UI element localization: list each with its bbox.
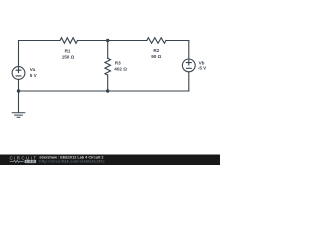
wire top rail middle segment [78,40,147,42]
node junction bottom middle [106,89,109,92]
wire middle branch upper [107,41,109,59]
svg-text:402 Ω: 402 Ω [114,67,127,72]
svg-text:5 V: 5 V [30,73,38,78]
Va minus sign [16,75,21,77]
footer watermark bar [0,155,220,166]
svg-text:R3: R3 [115,60,121,65]
resistor R3 [105,58,111,75]
logo LAB chip [25,160,36,163]
wire left branch upper [18,41,20,67]
voltage source Vb [182,59,195,72]
svg-text:R1: R1 [65,49,71,54]
wire right branch lower [188,72,190,91]
svg-text:R2: R2 [153,48,159,53]
wire right branch upper [188,41,190,60]
svg-text:150 Ω: 150 Ω [62,55,75,60]
wire middle branch lower [107,75,109,91]
logo resistor zigzag [10,160,24,162]
svg-text:Va: Va [30,67,36,72]
Vb plus sign [186,60,191,65]
svg-text:-5 V: -5 V [198,66,207,71]
wire ground stub [18,91,20,112]
svg-text:LAB: LAB [26,160,35,164]
wire top rail left segment [19,40,61,42]
wire left branch lower [18,79,20,91]
Vb minus sign [186,67,191,69]
node junction bottom left [17,89,20,92]
svg-text:90 Ω: 90 Ω [151,54,161,59]
node junction top middle [106,39,109,42]
resistor R2 [147,38,166,44]
ground [12,113,25,118]
voltage source Va [12,67,25,80]
Va plus sign [16,68,21,73]
wire bottom rail [19,90,189,92]
wire top rail right segment [166,40,189,42]
resistor R1 [60,38,78,44]
svg-text:http://circuitlab.com/c/abtahc: http://circuitlab.com/c/abtahcdf2c [39,159,104,163]
